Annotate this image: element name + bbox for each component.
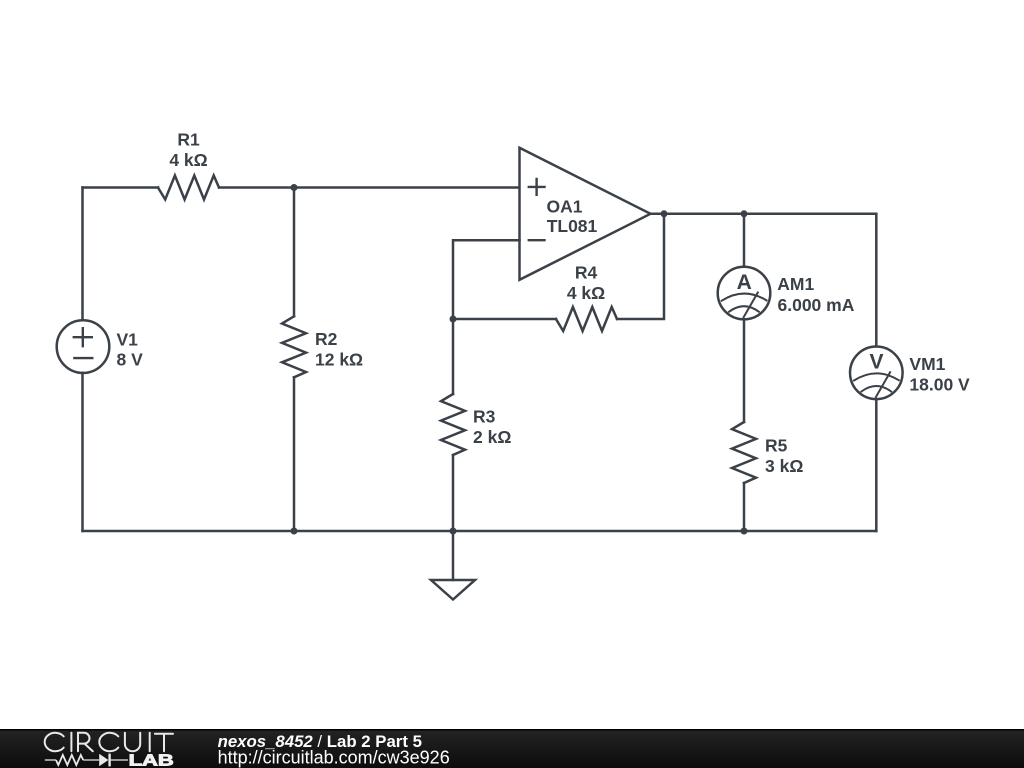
svg-text:R3: R3 (473, 407, 496, 427)
wire R4 left (453, 318, 556, 321)
VM1 needle (876, 372, 890, 397)
svg-text:TL081: TL081 (547, 216, 598, 236)
op-amp minus input symbol (529, 239, 545, 241)
node A (R1/R2 junction) (291, 184, 298, 191)
wire AM1 branch upper (743, 214, 746, 267)
svg-text:AM1: AM1 (777, 274, 814, 294)
svg-text:R2: R2 (315, 329, 338, 349)
op-amp OA1 (520, 148, 651, 280)
resistor R2 (282, 316, 306, 377)
logo resistor-diode line (45, 759, 128, 761)
wire output rail (651, 213, 877, 216)
ammeter AM1 (718, 267, 771, 320)
svg-text:3 kΩ: 3 kΩ (765, 456, 803, 476)
wire AM1 to R5 (743, 320, 746, 423)
node ground junction (450, 528, 457, 535)
wire top rail (V1 to R1) (83, 186, 159, 189)
svg-text:R1: R1 (177, 130, 200, 150)
svg-text:8 V: 8 V (117, 350, 144, 370)
voltage source V1 (57, 320, 110, 373)
svg-text:R5: R5 (765, 435, 788, 455)
V1 plus sign (74, 328, 92, 346)
node feedback junction (450, 316, 457, 323)
wire VM1 branch upper (875, 214, 878, 346)
svg-text:18.00 V: 18.00 V (909, 375, 970, 395)
svg-text:OA1: OA1 (547, 197, 583, 217)
wire R3 branch upper (452, 319, 455, 394)
node R2 bottom (291, 528, 298, 535)
svg-text:LAB: LAB (129, 753, 174, 768)
AM1 needle (744, 293, 758, 318)
resistor R3 (441, 394, 465, 455)
VM1 gauge arcs (854, 373, 899, 391)
wire R3 branch lower (452, 455, 455, 531)
wire bottom rail (83, 530, 877, 533)
wire R2 branch lower (293, 377, 296, 531)
op-amp plus input symbol (529, 179, 545, 195)
resistor R5 (732, 422, 756, 483)
logo resistor zigzag (56, 755, 83, 765)
svg-text:6.000 mA: 6.000 mA (778, 295, 855, 315)
svg-text:2 kΩ: 2 kΩ (473, 427, 511, 447)
AM1 gauge arcs (722, 294, 767, 312)
svg-text:A: A (737, 271, 752, 294)
CircuitLab logo CIRCUIT letters (45, 733, 173, 751)
svg-text:V: V (869, 351, 883, 374)
svg-text:R4: R4 (575, 263, 598, 283)
wire R4 right and up to output (617, 214, 664, 319)
node R5 bottom (741, 528, 748, 535)
wire R5 lower (743, 483, 746, 531)
logo diode (99, 754, 108, 766)
wire top rail (R1 to op-amp) (219, 186, 520, 189)
wire ground stub (452, 531, 455, 580)
svg-text:4 kΩ: 4 kΩ (567, 283, 605, 303)
svg-text:4 kΩ: 4 kΩ (169, 150, 207, 170)
svg-text:VM1: VM1 (909, 354, 945, 374)
voltmeter VM1 (850, 347, 903, 400)
wire left rail top (81, 188, 84, 321)
wire VM1 lower (875, 399, 878, 531)
resistor R1 (158, 176, 219, 200)
node AM1 junction (741, 210, 748, 217)
wire inverting input (453, 240, 520, 319)
resistor R4 (556, 307, 617, 331)
svg-text:12 kΩ: 12 kΩ (315, 349, 363, 369)
V1 minus sign (74, 357, 92, 359)
wire left rail bottom (81, 373, 84, 531)
svg-text:http://circuitlab.com/cw3e926: http://circuitlab.com/cw3e926 (218, 748, 450, 768)
svg-text:V1: V1 (117, 329, 139, 349)
node output junction (661, 210, 668, 217)
footer bar (0, 729, 1024, 768)
ground (431, 580, 475, 600)
wire R2 branch upper (293, 188, 296, 317)
